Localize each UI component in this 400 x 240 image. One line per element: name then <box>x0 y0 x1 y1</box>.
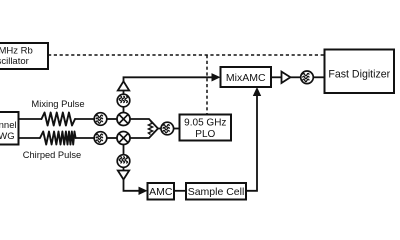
waveform: mixing pulse sine <box>42 113 76 126</box>
wire to filter F2 <box>76 137 95 139</box>
wire MixAMC to amp A2 <box>271 76 282 78</box>
wire: mixer M1 up to filter F4 <box>123 107 125 113</box>
svg-text:MixAMC: MixAMC <box>226 72 266 84</box>
waveform: chirped pulse <box>40 132 76 145</box>
arrowhead into MixAMC bottom <box>253 87 261 96</box>
wire: AWG top output <box>19 118 43 120</box>
dashed reference line vertical to PLO <box>206 55 208 115</box>
wire amp A1 up and right to MixAMC <box>124 77 213 81</box>
svg-text:Oscillator: Oscillator <box>0 56 29 67</box>
svg-text:2 Channel: 2 Channel <box>0 120 17 131</box>
svg-text:AWG: AWG <box>0 131 15 142</box>
amplifier A1 (pointing up) <box>118 81 129 90</box>
filter F2 <box>94 132 107 145</box>
wire filter F6 to amp A3 <box>123 167 125 170</box>
wire: mixer M2 down to filter F6 <box>123 145 125 155</box>
svg-text:Sample Cell: Sample Cell <box>188 186 245 198</box>
mixer M1 <box>117 113 130 126</box>
wire amp A2 to filter F5 <box>290 76 300 78</box>
box: 2 Channel AWG (clipped at left edge) <box>0 112 19 145</box>
wire amp A3 down and right to AMC <box>124 180 140 191</box>
amplifier A3 (pointing down) <box>118 171 129 180</box>
filter F3 <box>161 122 174 135</box>
svg-text:Chirped Pulse: Chirped Pulse <box>23 150 81 160</box>
wire filter F1 to mixer M1 <box>107 118 117 120</box>
mixer M2 <box>117 132 130 145</box>
wire splitter to filter F3 <box>158 128 162 130</box>
svg-text:Fast Digitizer: Fast Digitizer <box>328 68 390 80</box>
amplifier A2 (pointing right) <box>282 72 291 83</box>
box: 9.05 GHz PLO <box>180 115 232 141</box>
box: Fast Digitizer <box>325 50 395 94</box>
wire AMC to Sample Cell <box>174 190 186 192</box>
wire to filter F1 <box>75 118 95 120</box>
filter F1 <box>94 113 107 126</box>
arrowhead into AMC left <box>139 187 148 195</box>
wire mixer M1 to splitter <box>130 119 158 129</box>
wire Sample Cell right, up to MixAMC bottom <box>246 95 257 191</box>
box: 10 MHz Rb Oscillator (clipped at left edge) <box>0 43 48 69</box>
wire mixer M2 to splitter <box>130 129 158 139</box>
box: AMC <box>148 183 175 200</box>
svg-text:Mixing Pulse: Mixing Pulse <box>31 98 84 109</box>
wire filter F4 to amp A1 <box>123 91 125 95</box>
filter F5 <box>301 71 314 84</box>
box: MixAMC <box>221 67 272 87</box>
wire filter F5 to Fast Digitizer <box>313 76 324 78</box>
filter F4 <box>117 94 130 107</box>
svg-text:PLO: PLO <box>195 129 215 140</box>
wire: AWG bottom output <box>19 137 41 139</box>
dashed reference line horizontal <box>48 54 324 56</box>
wire filter F3 to PLO <box>174 128 179 130</box>
filter F6 <box>117 155 130 168</box>
svg-text:9.05 GHz: 9.05 GHz <box>184 118 226 129</box>
arrowhead into MixAMC left <box>212 73 221 81</box>
box: Sample Cell <box>186 183 246 200</box>
svg-text:AMC: AMC <box>149 186 173 198</box>
splitter isolation resistor <box>148 122 152 135</box>
wire filter F2 to mixer M2 <box>107 137 117 139</box>
